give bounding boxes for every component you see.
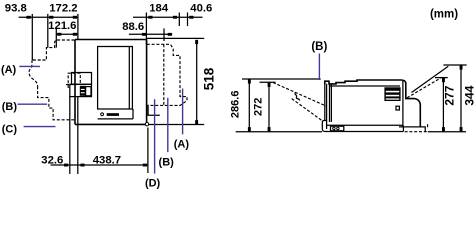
svg-text:172.2: 172.2 [49,3,77,15]
label (B) bottom with leader [159,98,175,169]
svg-text:438.7: 438.7 [93,154,121,166]
dim 172.2 [48,3,78,48]
svg-text:344: 344 [462,85,474,105]
side view: front cover open dashed diagonal A [273,83,326,107]
dim 88.6 [122,21,172,41]
dim 438.7 [78,97,148,174]
svg-text:518: 518 [202,67,217,90]
svg-text:121.6: 121.6 [48,20,76,32]
dim 272 [253,82,276,131]
dim 32.6 [41,97,148,174]
dim 184 [133,3,203,45]
side view: front cover open dashed diagonal B [292,99,322,121]
side view: paper cassette bar [327,125,403,131]
dim 277 [435,78,457,132]
dim 121.6 [48,20,78,47]
dim 286.6 [230,79,321,132]
label (A) bottom with leader [174,89,190,151]
dim 344 [443,65,474,132]
front view: top-right dashed open-tray outline [147,44,187,105]
label (A) left with leader [1,64,40,76]
front view: control panel [98,109,133,119]
svg-text:(A): (A) [174,138,190,150]
label (C) left with leader [2,123,56,135]
side view: body outline [322,80,420,132]
svg-text:93.8: 93.8 [5,3,27,15]
svg-text:286.6: 286.6 [230,91,242,119]
svg-text:(B): (B) [2,101,18,113]
side view: rear plinth [399,127,425,132]
dim 93.8 [5,3,78,60]
front view: left dashed open-tray outline [29,40,75,120]
side view: rear tray open dashed diagonal [407,77,442,98]
side view: rear dashed hidden bottom [405,131,427,133]
front view: left connector box [66,73,92,97]
svg-text:(B): (B) [311,41,327,53]
side view: ground baseline [236,131,466,133]
front view: right-side bracket step [148,105,160,115]
svg-text:(C): (C) [2,123,18,135]
svg-text:(mm): (mm) [430,9,458,21]
side view: break squiggle [295,92,300,100]
side view: vent grille [384,87,400,101]
dim 40.6 [188,3,213,26]
label (B) side view with leader [311,41,327,80]
svg-text:(D): (D) [145,177,161,189]
dim 518 [147,38,217,124]
side view: rear tray open solid diagonal [412,66,449,92]
svg-text:272: 272 [253,98,265,116]
svg-text:(A): (A) [1,64,17,76]
svg-text:(B): (B) [159,156,175,168]
front view: front door [98,47,133,110]
svg-text:277: 277 [443,85,457,105]
svg-text:184: 184 [149,3,169,15]
side view: front cover seam [330,84,332,122]
front view: bottom-right caster [145,123,148,126]
svg-text:40.6: 40.6 [190,3,212,15]
label (B) left with leader [2,101,47,113]
side view: small square button [396,106,399,110]
front view: printer body outline [75,40,147,125]
label (D) bottom with leader [145,99,161,189]
svg-text:88.6: 88.6 [122,21,144,33]
